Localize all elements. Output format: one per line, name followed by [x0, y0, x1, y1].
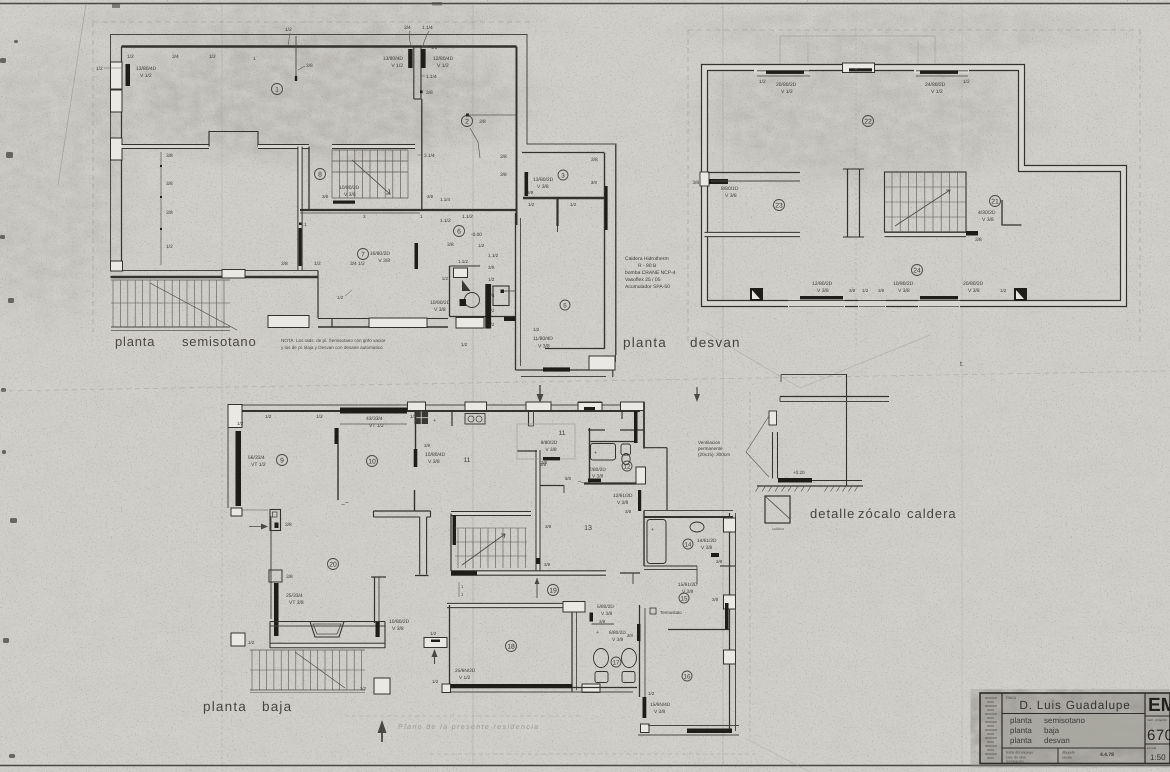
baja corner pillar box top-left [228, 405, 242, 428]
detail leader lines [746, 416, 769, 452]
svg-text:1/2: 1/2 [1000, 288, 1007, 293]
mottled scan patch desvan room 22 [650, 25, 1080, 210]
svg-text:4/30/2D: 4/30/2D [978, 210, 996, 216]
svg-text:V 3/8: V 3/8 [601, 611, 613, 617]
radiator terrace right [376, 622, 380, 637]
left radiator box mid [270, 510, 281, 531]
svg-text:3/8: 3/8 [286, 574, 293, 580]
radiator right wall rooms 3/5 [605, 186, 608, 230]
svg-text:1.1/4: 1.1/4 [426, 74, 437, 80]
svg-text:1: 1 [275, 86, 279, 93]
svg-text:1/2: 1/2 [96, 66, 103, 72]
svg-text:y los de pl. Baja y Desvan con: y los de pl. Baja y Desvan con desaire a… [281, 345, 383, 350]
room 10 circle [367, 456, 378, 467]
desvan bottom flag box left [750, 288, 763, 301]
svg-text:permanente: permanente [698, 446, 723, 451]
baja kitchen window dark band [340, 408, 407, 414]
corridor wall x=538 [536, 450, 541, 571]
svg-text:19: 19 [549, 587, 557, 594]
svg-text:caldera: caldera [772, 527, 784, 531]
exterior stairs baja [251, 650, 253, 690]
svg-text:3: 3 [561, 172, 565, 179]
shower heater box [493, 286, 509, 306]
title block left strip divider [1001, 693, 1003, 764]
property dashed line desvan right [1139, 30, 1141, 345]
corridor stub wall y=451 [518, 450, 538, 452]
baja top pier box 1 [408, 402, 426, 411]
door step box far left [231, 633, 245, 646]
radiator right wall room 16 top [725, 603, 729, 629]
svg-text:3/8: 3/8 [540, 462, 547, 467]
interior wall y=146.5 stair-room segment [332, 144, 415, 149]
svg-text:3/8: 3/8 [322, 194, 329, 199]
baja top wall inner thick [234, 410, 640, 412]
svg-text:10/80/2D: 10/80/2D [893, 281, 914, 287]
svg-text:7/80/2D: 7/80/2D [589, 467, 606, 473]
bath lower-right walls semisotano [449, 266, 451, 317]
door step box bottom 2 [369, 318, 427, 328]
detail wall vertical line [846, 374, 848, 486]
bidet room 17 [622, 649, 637, 668]
svg-text:24: 24 [913, 267, 921, 274]
svg-text:V 1/2: V 1/2 [437, 63, 449, 69]
desvan bottom flag box right [1014, 288, 1027, 301]
property dashed line desvan left [687, 30, 689, 345]
stairs interior baja wall above [451, 511, 531, 516]
property dashed line baja right [749, 392, 751, 738]
svg-text:t.: t. [960, 361, 964, 368]
svg-text:baja: baja [262, 699, 292, 714]
door box room 17 bottom [582, 684, 600, 693]
property dashed line baja bottom [430, 753, 756, 755]
wall rooms 3/5 divider [523, 197, 604, 199]
svg-text:3/8: 3/8 [712, 597, 719, 602]
desvan bottom small opening [858, 300, 886, 308]
plumbing wall x=515.5 [515, 213, 517, 370]
T-wall room20/hall horizontal [374, 510, 431, 512]
svg-text:Ventilacion: Ventilacion [698, 440, 721, 445]
svg-text:+0.20: +0.20 [793, 470, 805, 475]
detail vent box [769, 411, 777, 425]
room 3 circle [558, 170, 568, 180]
rooms 10/11 divider x=415.5 [415, 411, 417, 467]
room 16 circle [682, 671, 692, 681]
svg-text:12/80/2D: 12/80/2D [812, 281, 833, 287]
fold crease horizontal middle [0, 371, 1170, 391]
fold crease vertical x=962 [961, 4, 963, 765]
svg-text:V 3/8: V 3/8 [592, 474, 604, 480]
arrow into room 20 [249, 526, 266, 528]
terrace bottom wall [270, 643, 385, 649]
radiator room 11b [543, 457, 560, 460]
scan speck top edge [112, 4, 120, 8]
radiator rooms 10/11 divider [414, 449, 418, 467]
room 23 circle [774, 200, 785, 211]
room 22 circle [863, 116, 874, 127]
svg-text:20/80/2D: 20/80/2D [776, 82, 797, 88]
svg-text:15/6N/4D: 15/6N/4D [650, 702, 671, 708]
svg-text:15: 15 [681, 595, 688, 602]
svg-text:planta: planta [115, 334, 155, 349]
bottom wall center rooms [317, 271, 319, 319]
svg-text:planta: planta [1010, 736, 1032, 745]
svg-text:3/8: 3/8 [500, 154, 507, 160]
svg-text:1/2: 1/2 [127, 54, 134, 60]
svg-text:11/80/4D: 11/80/4D [533, 336, 553, 342]
stair room 8 circle [315, 169, 326, 180]
wall x=667 down [666, 448, 668, 510]
door step box bottom [374, 678, 390, 694]
svg-text:3/8: 3/8 [447, 242, 454, 248]
svg-text:FINCA: FINCA [1006, 696, 1017, 700]
svg-text:10/80/2D: 10/80/2D [389, 619, 410, 625]
desvan outer walls double [705, 68, 1124, 304]
svg-text:1/2: 1/2 [432, 679, 439, 684]
room 6 circle [454, 226, 465, 237]
stair arrow desvan [895, 190, 950, 226]
room 3 top outer wall [527, 143, 616, 145]
room 19 circle [548, 585, 559, 596]
window box left wall upper [111, 90, 123, 112]
title block outer border [980, 693, 1170, 764]
detail zocalo dark bar [778, 478, 812, 483]
svg-text:1/2: 1/2 [360, 686, 367, 691]
room 12 circle [622, 461, 632, 471]
faint diagonal below desvan right [800, 335, 930, 388]
svg-text:D. Luis Guadalupe: D. Luis Guadalupe [1019, 698, 1130, 712]
faint diagonal below desvan left [705, 332, 800, 388]
room 9 circle [277, 455, 288, 466]
svg-text:12: 12 [624, 463, 631, 470]
svg-text:1/2: 1/2 [248, 640, 255, 645]
right wall x=516 rooms 2/3 [516, 47, 518, 226]
dark square bath [460, 299, 467, 306]
radiator below stairs [333, 201, 355, 204]
svg-text:1/2: 1/2 [337, 295, 344, 300]
wall pillar x=847-860 [847, 169, 849, 237]
svg-text:caldera: caldera [907, 506, 957, 521]
svg-text:1/2: 1/2 [478, 243, 485, 248]
svg-text:3/8: 3/8 [281, 261, 288, 267]
room 18 top wall [447, 603, 565, 608]
stairs interior grid [457, 528, 459, 568]
stair arrow baja [462, 534, 505, 565]
stairs interior left wall [450, 514, 452, 572]
fold crease vertical x=473 [472, 4, 474, 765]
svg-text:V 3/8: V 3/8 [537, 184, 549, 190]
corridor stub wall y=485.5 [540, 485, 564, 487]
svg-text:V 3/8: V 3/8 [612, 637, 624, 643]
interior wall y=146.5 mid segment [258, 144, 309, 149]
svg-text:baja: baja [1044, 726, 1060, 735]
terrace step below bath [516, 369, 614, 371]
svg-text:V 1/2: V 1/2 [931, 89, 943, 95]
svg-text:3/8: 3/8 [975, 237, 982, 243]
radiator terrace step [543, 367, 570, 371]
svg-text:V 3/8: V 3/8 [725, 193, 737, 199]
svg-text:V 1/2: V 1/2 [391, 63, 403, 69]
vertical dimension line left room [160, 152, 162, 265]
dark mark room 14 [711, 553, 719, 557]
svg-text:Termostato: Termostato [660, 610, 682, 615]
stair diagonal baja [295, 652, 345, 688]
baja top pier box 4 [579, 402, 602, 411]
svg-text:670: 670 [1147, 727, 1170, 744]
svg-text:1/2: 1/2 [533, 327, 540, 332]
svg-text:V 3/8: V 3/8 [817, 288, 829, 294]
svg-text:+: + [594, 451, 597, 457]
baja top pier box 3 [526, 402, 551, 411]
svg-text:5: 5 [563, 302, 567, 309]
property dashed line around semisotano horizontal [93, 21, 530, 23]
room 15 circle [679, 593, 689, 603]
svg-text:3/8: 3/8 [166, 210, 173, 216]
svg-text:terminacion: terminacion [1006, 760, 1024, 764]
stair arrow room 8 [352, 160, 390, 194]
svg-text:-0.00: -0.00 [471, 232, 482, 238]
rooms 15/16 left wall [639, 605, 641, 697]
svg-text:3/8: 3/8 [426, 90, 433, 96]
bathtub room 14 [647, 520, 666, 564]
room 3 top inner wall [522, 152, 604, 154]
room 5 circle [560, 300, 570, 310]
detail ground line and hatching [757, 485, 863, 487]
pipe drop center room 1 [295, 36, 297, 80]
svg-text:13: 13 [584, 525, 592, 532]
svg-text:8/80/1D: 8/80/1D [721, 186, 739, 192]
central wall thin continuation [421, 99, 423, 210]
room 14 left wall [643, 511, 645, 567]
radiator room 9 left wall [236, 431, 242, 506]
dim line to radiator box [241, 509, 268, 511]
svg-text:V 3/8: V 3/8 [701, 545, 713, 551]
svg-text:22: 22 [864, 118, 872, 125]
svg-text:12/80/4D: 12/80/4D [433, 56, 454, 62]
svg-text:3/8: 3/8 [692, 180, 699, 186]
svg-text:11: 11 [559, 430, 566, 437]
detail left wall lines [772, 432, 774, 479]
svg-text:3/8: 3/8 [479, 119, 486, 125]
room 21 interior wall [1002, 200, 1022, 225]
fold crease vertical x=222 [221, 390, 223, 765]
svg-text:1/2: 1/2 [648, 691, 655, 696]
long wall y=573 [451, 570, 606, 576]
wall room11/12 vertical [589, 428, 591, 483]
svg-text:.1: .1 [303, 222, 307, 227]
baja left wall room 9 [227, 428, 229, 509]
svg-text:11: 11 [464, 457, 471, 464]
desvan bottom window 1 [788, 300, 845, 308]
radiator room 18 bottom [451, 684, 572, 688]
svg-text:3/8: 3/8 [488, 265, 495, 270]
wall y=447.7 right of room 12 [644, 447, 667, 449]
baja top wall outer thin [228, 404, 640, 406]
svg-text:3/8: 3/8 [527, 190, 534, 195]
svg-text:VT 1/2: VT 1/2 [251, 462, 266, 468]
room 12 right window box [636, 467, 646, 484]
property dashed line baja bottom 2 [345, 715, 580, 717]
fold crease vertical x=723 [722, 4, 724, 765]
svg-text:3/8: 3/8 [565, 476, 572, 481]
second arrow top baja [696, 387, 698, 397]
toilet room 17 [594, 649, 609, 668]
svg-text:4.4.78: 4.4.78 [1100, 752, 1114, 758]
wall y=234.5 room 23 bottom [705, 232, 801, 237]
svg-text:1/2: 1/2 [431, 45, 438, 50]
svg-text:13/80/4D: 13/80/4D [136, 66, 157, 72]
room 11/12 top boxes [578, 403, 602, 411]
svg-text:24/80/2D: 24/80/2D [925, 82, 946, 88]
shelf line room 17 [592, 623, 615, 625]
semisotano outer contour thin line [111, 35, 617, 356]
svg-text:9: 9 [280, 457, 284, 464]
svg-text:17: 17 [613, 659, 620, 666]
room 12 right wall dark L [643, 402, 645, 449]
svg-text:1/2: 1/2 [461, 342, 468, 347]
central wall x=417 double pair rooms 1/2 [413, 47, 415, 100]
svg-text:3/4: 3/4 [172, 54, 179, 60]
room 16 bottom wall [648, 725, 739, 727]
room 17 circle [611, 657, 621, 667]
svg-text:fecha del encargo: fecha del encargo [1006, 751, 1033, 755]
room 23 wall y=172 [708, 172, 800, 174]
room 24 circle [912, 265, 923, 276]
chimney bump [209, 132, 258, 147]
right wall window box 3 [724, 650, 736, 664]
north arrow baja [381, 724, 383, 742]
svg-text:EM: EM [1148, 695, 1170, 716]
svg-text:6/80/2D: 6/80/2D [609, 630, 626, 636]
room 12 top wall y=430 [588, 429, 605, 431]
svg-text:3/4: 3/4 [404, 25, 411, 31]
svg-text:planta: planta [203, 699, 247, 714]
svg-text:1.1/2: 1.1/2 [458, 259, 469, 264]
kitchen right wall tab [451, 411, 453, 426]
svg-text:43/33/4: 43/33/4 [366, 416, 383, 422]
svg-text:3/4 1/2: 3/4 1/2 [350, 261, 365, 267]
radiator desvan left [709, 179, 728, 184]
left wall room 20 [270, 516, 272, 619]
svg-text:V 3/8: V 3/8 [392, 626, 404, 632]
right column divider [1144, 693, 1146, 764]
svg-text:1/2: 1/2 [442, 276, 449, 281]
crease dotted x=856 [855, 28, 857, 345]
dim ticks below stairs [458, 582, 460, 597]
desvan bottom window 2 [918, 300, 960, 308]
svg-text:1.1/2: 1.1/2 [440, 218, 451, 224]
terrace planter bowl [310, 622, 344, 638]
svg-text:1:50: 1:50 [1150, 753, 1166, 762]
svg-text:V 3/8: V 3/8 [968, 288, 980, 294]
svg-text:20/80/2D: 20/80/2D [963, 281, 984, 287]
rooms 17/18 divider [571, 605, 573, 692]
svg-text:escala: escala [1147, 746, 1156, 750]
svg-text:bomba CRANE NCP-4: bomba CRANE NCP-4 [625, 270, 676, 276]
room 18 left wall [449, 605, 451, 688]
room 14 bottom wall [644, 565, 697, 567]
window box room5 bottom [589, 356, 615, 370]
radiator left wall room 20 lower [274, 583, 279, 636]
toilet circle bath [465, 293, 480, 308]
svg-text:1.1/4: 1.1/4 [440, 197, 451, 202]
big radiator bar bath [485, 284, 491, 329]
window box left wall lower [111, 138, 123, 160]
semisotano top wall thick [122, 45, 517, 48]
room 8 left wall [308, 147, 310, 210]
desvan chimney box top wall [843, 63, 875, 73]
terrace side walls [269, 622, 271, 649]
window box left wall top [111, 62, 123, 89]
svg-text:56/33/4: 56/33/4 [248, 455, 265, 461]
svg-text:18: 18 [507, 643, 515, 650]
svg-text:23: 23 [775, 202, 783, 209]
faint dashed closet rect [517, 424, 575, 459]
top border line [0, 3, 1170, 5]
scan specks left edge [0, 58, 6, 63]
svg-text:1/2: 1/2 [759, 79, 766, 85]
room 20 circle [328, 559, 339, 570]
svg-text:V 3/8: V 3/8 [538, 344, 550, 350]
svg-text:3/8: 3/8 [427, 194, 434, 199]
svg-text:6: 6 [457, 228, 461, 235]
svg-text:3/8: 3/8 [599, 619, 606, 624]
entry arrow top baja [539, 385, 541, 398]
door box room 18 left [424, 638, 447, 648]
step box below bath [456, 318, 484, 329]
svg-text:3/8: 3/8 [849, 288, 856, 293]
radiator x=639 [638, 490, 641, 511]
svg-text:escala: escala [1062, 756, 1072, 760]
door step box bottom 1 [268, 316, 309, 328]
svg-text:V 3/8: V 3/8 [617, 500, 629, 506]
svg-text:~: ~ [345, 500, 349, 507]
termostato [650, 608, 656, 614]
svg-text:3/8: 3/8 [166, 153, 173, 159]
svg-text:planta: planta [623, 335, 667, 350]
svg-text:20: 20 [329, 561, 337, 568]
node dot room2 [466, 114, 469, 117]
detail top stub line [781, 374, 847, 376]
title block background [980, 693, 1170, 764]
baja top pier box 2 [465, 402, 487, 411]
room 5 bottom inner wall [545, 348, 605, 350]
room 5 left wall upper [556, 198, 558, 226]
interior wall y=146.5 left segment [122, 144, 210, 149]
door swing wedge bath [462, 280, 471, 291]
svg-text:NOTA: Los rads. de pl. Semisot: NOTA: Los rads. de pl. Semisotano con gr… [281, 338, 386, 343]
svg-text:1/2: 1/2 [316, 414, 323, 420]
svg-text:1/2: 1/2 [237, 421, 244, 426]
svg-text:1: 1 [253, 56, 256, 62]
svg-text:Caldera Hidrotherm: Caldera Hidrotherm [625, 256, 669, 262]
kitchen stove dark box [415, 412, 429, 425]
svg-text:16: 16 [684, 673, 691, 680]
svg-text:semisotano: semisotano [182, 334, 256, 349]
stair grid room 8 [331, 150, 333, 198]
svg-text:3/8: 3/8 [544, 562, 551, 567]
room 12 wall y=441.5 [591, 441, 635, 443]
svg-text:25/33/4: 25/33/4 [286, 593, 303, 599]
room 7 circle [358, 249, 369, 260]
white box bottom-left corner room 18 [442, 684, 451, 693]
room 21 circle [990, 196, 1001, 207]
svg-text:5/80/2D: 5/80/2D [597, 604, 614, 610]
sink room 14 [690, 522, 704, 532]
svg-text:3/8: 3/8 [625, 509, 632, 514]
plan list rows [1003, 715, 1144, 748]
svg-text:Acumulador SPA-50: Acumulador SPA-50 [625, 284, 670, 290]
bathtub room 12 [591, 444, 616, 461]
